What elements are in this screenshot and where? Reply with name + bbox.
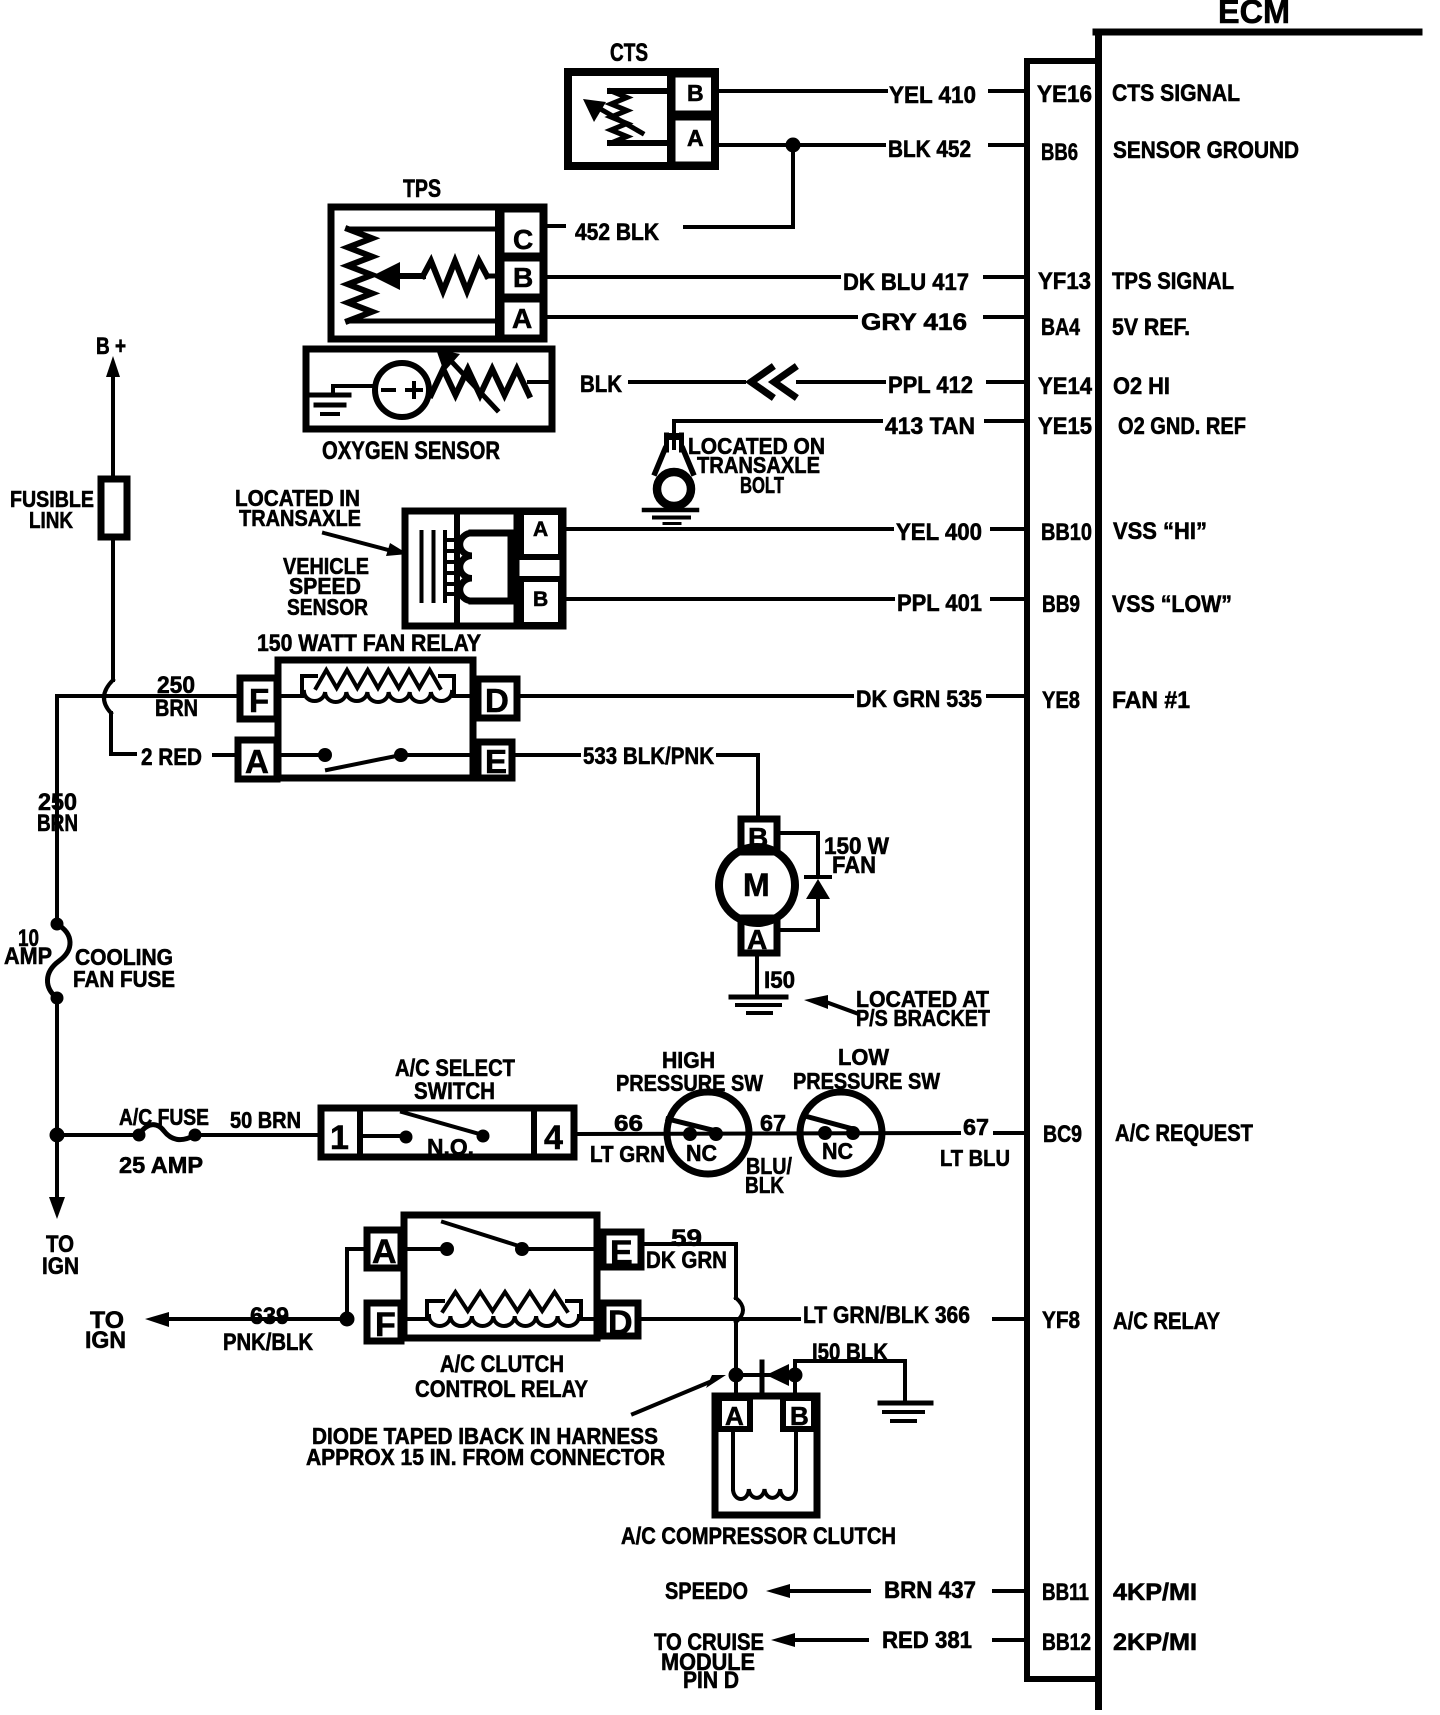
wire A branch	[347, 1249, 367, 1319]
ECM pin BA4	[1041, 314, 1081, 341]
ECM module box	[1096, 32, 1419, 1710]
svg-text:A/C FUSE: A/C FUSE	[119, 1104, 209, 1130]
svg-text:BB12: BB12	[1042, 1629, 1091, 1656]
ECM pin YF8	[1042, 1307, 1080, 1334]
oxygen sensor cell	[333, 363, 429, 417]
svg-text:4KP/MI: 4KP/MI	[1113, 1579, 1197, 1606]
svg-text:YEL 410: YEL 410	[889, 82, 976, 109]
svg-text:2KP/MI: 2KP/MI	[1113, 1629, 1197, 1656]
fan relay switch	[277, 748, 478, 770]
low pressure switch label	[793, 1044, 940, 1094]
fan relay pin A	[238, 740, 277, 780]
svg-text:PPL 401: PPL 401	[897, 590, 982, 617]
svg-text:A/C CLUTCH: A/C CLUTCH	[440, 1351, 564, 1378]
ECM pin BB6	[1041, 139, 1078, 166]
wire fusible link to 2 RED	[104, 537, 135, 754]
A/C select switch contacts	[360, 1112, 490, 1160]
svg-text:SENSOR: SENSOR	[287, 594, 368, 620]
svg-text:67: 67	[760, 1110, 786, 1136]
VSS pin A	[521, 512, 561, 557]
ECM signal label FAN #1	[1112, 687, 1190, 714]
svg-text:A: A	[533, 518, 548, 541]
ECM pin BB10	[1041, 519, 1092, 546]
fan relay pin E	[478, 742, 512, 780]
svg-text:FAN: FAN	[832, 852, 876, 879]
svg-text:APPROX 15 IN. FROM CONNECTOR: APPROX 15 IN. FROM CONNECTOR	[306, 1444, 665, 1470]
svg-text:ECM: ECM	[1218, 0, 1290, 30]
wire YEL 400	[563, 519, 1027, 546]
fan motor pin B	[741, 819, 777, 853]
svg-text:B: B	[533, 588, 548, 611]
diode note arrow	[633, 1375, 726, 1414]
compressor clutch body	[715, 1396, 817, 1515]
ECM signal label 4KP/MI	[1113, 1579, 1197, 1606]
ground I50 BLK	[880, 1403, 931, 1421]
fan motor	[719, 847, 795, 923]
ECM signal label VSS LOW	[1112, 591, 1232, 618]
svg-text:O2 GND. REF: O2 GND. REF	[1118, 413, 1246, 440]
A/C select switch label	[395, 1055, 515, 1105]
svg-text:PNK/BLK: PNK/BLK	[223, 1329, 314, 1356]
wire fan motor to ground	[757, 953, 795, 996]
wire 250 BRN rail	[37, 696, 78, 917]
ECM pin BB12	[1042, 1629, 1091, 1656]
svg-text:B: B	[687, 80, 704, 106]
svg-text:SPEEDO: SPEEDO	[665, 1578, 748, 1605]
svg-text:F: F	[375, 1306, 396, 1344]
svg-text:YF8: YF8	[1042, 1307, 1080, 1334]
VSS note arrow	[324, 533, 408, 556]
CTS thermistor	[610, 91, 667, 143]
TPS resistor	[348, 229, 498, 321]
svg-text:PPL 412: PPL 412	[888, 372, 973, 399]
svg-text:BLK: BLK	[580, 371, 623, 398]
wire 452 BLK branch	[545, 145, 793, 246]
wire 639 PNK/BLK	[85, 1303, 347, 1356]
wire DK GRN 535	[517, 686, 1027, 713]
svg-text:RED 381: RED 381	[882, 1627, 972, 1654]
A/C relay pin F	[367, 1303, 401, 1344]
A/C select switch pin 4	[544, 1119, 563, 1157]
junction dot 452	[786, 138, 801, 153]
svg-text:LOW: LOW	[838, 1044, 889, 1070]
svg-text:BB11: BB11	[1042, 1579, 1089, 1606]
svg-text:BRN: BRN	[155, 695, 198, 722]
ECM signal label VSS HI	[1113, 518, 1207, 545]
VSS coil 1	[445, 532, 456, 601]
ECM signal label 5V REF.	[1112, 314, 1190, 341]
TPS pin B	[502, 259, 542, 296]
A/C select switch body	[321, 1108, 574, 1157]
fusible link	[10, 479, 127, 537]
A/C relay pin D	[603, 1303, 638, 1342]
fan motor pin A	[741, 918, 777, 955]
svg-text:LT BLU: LT BLU	[940, 1145, 1010, 1171]
fan relay pin F	[240, 678, 277, 719]
fan label	[824, 833, 889, 879]
svg-text:FAN #1: FAN #1	[1112, 687, 1190, 714]
A/C clutch control relay body	[404, 1215, 597, 1338]
svg-text:413 TAN: 413 TAN	[885, 413, 975, 440]
ECM signal label A/C REQUEST	[1115, 1120, 1253, 1147]
ECM pin YE14	[1038, 373, 1093, 400]
wire 2 RED	[141, 744, 237, 771]
TPS label	[403, 175, 441, 203]
svg-text:VSS “HI”: VSS “HI”	[1113, 518, 1207, 545]
ground I50	[731, 997, 786, 1013]
svg-text:BLK 452: BLK 452	[888, 136, 971, 163]
A/C relay pin A	[367, 1230, 401, 1271]
svg-text:PIN D: PIN D	[683, 1667, 739, 1694]
svg-text:4: 4	[544, 1119, 563, 1157]
oxygen sensor body	[306, 349, 552, 429]
wire rail to IGN	[42, 1135, 79, 1280]
ECM signal label CTS SIGNAL	[1112, 80, 1240, 107]
VSS coil 2	[460, 533, 511, 601]
svg-text:DK GRN: DK GRN	[646, 1247, 727, 1274]
ECM signal label O2 GND. REF	[1118, 413, 1246, 440]
oxygen sensor ground	[312, 386, 349, 414]
svg-text:M: M	[743, 867, 770, 903]
TPS wiper	[372, 261, 502, 291]
oxygen sensor label	[322, 437, 500, 465]
svg-text:YF13: YF13	[1038, 268, 1091, 295]
wire 59 DK GRN	[641, 1225, 743, 1375]
CTS pin A	[673, 118, 714, 164]
svg-text:TRANSAXLE: TRANSAXLE	[239, 505, 361, 531]
svg-text:F: F	[249, 682, 269, 719]
svg-text:BA4: BA4	[1041, 314, 1081, 341]
oxygen sensor variable resistor	[431, 349, 552, 410]
svg-text:67: 67	[963, 1114, 989, 1140]
P/S bracket note	[804, 986, 990, 1031]
transaxle bolt ground	[644, 433, 697, 524]
svg-text:CTS: CTS	[610, 39, 648, 67]
svg-text:150 WATT FAN RELAY: 150 WATT FAN RELAY	[257, 630, 481, 657]
ECM signal label TPS SIGNAL	[1112, 268, 1234, 295]
svg-text:CONTROL RELAY: CONTROL RELAY	[415, 1376, 588, 1403]
compressor label	[621, 1523, 896, 1550]
svg-text:YE8: YE8	[1042, 687, 1080, 714]
wire 67 BLU/BLK	[745, 1110, 793, 1198]
svg-text:SWITCH: SWITCH	[414, 1078, 495, 1105]
B+ label	[96, 333, 126, 360]
svg-text:TPS SIGNAL: TPS SIGNAL	[1112, 268, 1234, 295]
svg-text:NC: NC	[686, 1140, 717, 1166]
svg-text:639: 639	[250, 1303, 289, 1330]
svg-text:A: A	[245, 743, 269, 780]
svg-text:BLK: BLK	[745, 1172, 784, 1198]
svg-text:533 BLK/PNK: 533 BLK/PNK	[583, 743, 715, 770]
A/C relay pin E	[603, 1232, 641, 1272]
ECM pin YE8	[1042, 687, 1080, 714]
wire 413 TAN	[674, 413, 1027, 448]
svg-text:AMP: AMP	[4, 943, 52, 970]
ECM signal label O2 HI	[1113, 373, 1170, 400]
svg-text:5V REF.: 5V REF.	[1112, 314, 1190, 341]
svg-text:66: 66	[614, 1110, 643, 1136]
compressor coil	[733, 1432, 796, 1499]
svg-text:BB10: BB10	[1041, 519, 1092, 546]
svg-text:IGN: IGN	[42, 1253, 79, 1280]
fan relay body	[278, 660, 473, 778]
wire 533 BLK/PNK	[512, 743, 758, 819]
TPS pin A	[502, 300, 542, 337]
svg-text:D: D	[608, 1304, 633, 1342]
svg-text:A/C REQUEST: A/C REQUEST	[1115, 1120, 1253, 1147]
ECM pin YE15	[1038, 413, 1092, 440]
svg-text:IGN: IGN	[85, 1327, 126, 1354]
svg-text:N.O.: N.O.	[427, 1134, 474, 1160]
wire 66 LT GRN	[574, 1110, 959, 1167]
svg-text:LT GRN: LT GRN	[590, 1141, 665, 1167]
ECM pin BB11	[1042, 1579, 1089, 1606]
junction dot clutch A	[729, 1368, 744, 1383]
svg-text:BB9: BB9	[1042, 591, 1080, 618]
svg-text:B +: B +	[96, 333, 126, 360]
ECM signal label A/C RELAY	[1113, 1308, 1220, 1335]
svg-text:E: E	[610, 1234, 633, 1272]
svg-text:A: A	[725, 1401, 744, 1431]
wire PPL 401	[563, 590, 1027, 617]
svg-text:I50 BLK: I50 BLK	[812, 1339, 889, 1366]
svg-text:DK BLU 417: DK BLU 417	[843, 269, 969, 296]
wire BLK 452	[715, 136, 1027, 163]
wire RED 381	[654, 1627, 1027, 1656]
wire GRY 416	[542, 309, 1027, 336]
svg-text:452 BLK: 452 BLK	[575, 219, 660, 246]
TPS pin C	[502, 210, 542, 255]
wire 67 LT BLU	[940, 1114, 1027, 1171]
compressor pin B	[783, 1382, 814, 1431]
svg-text:YE15: YE15	[1038, 413, 1092, 440]
VSS label	[283, 553, 369, 620]
CTS sensor body	[568, 72, 715, 166]
svg-text:A/C COMPRESSOR CLUTCH: A/C COMPRESSOR CLUTCH	[621, 1523, 896, 1550]
compressor pin A	[719, 1382, 750, 1431]
fan relay pin D	[478, 679, 517, 719]
svg-text:O2 HI: O2 HI	[1113, 373, 1170, 400]
svg-text:YEL 400: YEL 400	[896, 519, 982, 546]
wire 50 BRN	[195, 1107, 318, 1135]
A/C clutch control relay label	[415, 1351, 588, 1403]
svg-text:SENSOR GROUND: SENSOR GROUND	[1113, 137, 1299, 164]
ECM connector strip	[1027, 61, 1099, 1679]
svg-text:VSS “LOW”: VSS “LOW”	[1112, 591, 1232, 618]
svg-text:A: A	[687, 125, 704, 151]
svg-text:YE14: YE14	[1038, 373, 1093, 400]
svg-text:PRESSURE SW: PRESSURE SW	[793, 1068, 940, 1094]
wire BRN 437	[665, 1577, 1027, 1605]
fan diode	[777, 833, 830, 930]
wire rail to junction	[55, 998, 59, 1135]
CTS arrow	[583, 99, 642, 133]
CTS label	[610, 39, 648, 67]
svg-text:A: A	[372, 1233, 397, 1271]
svg-text:BB6: BB6	[1041, 139, 1078, 166]
VSS body	[405, 511, 563, 626]
svg-text:E: E	[485, 743, 507, 780]
clutch diode	[736, 1362, 795, 1390]
svg-text:BC9: BC9	[1043, 1121, 1082, 1148]
svg-text:25 AMP: 25 AMP	[119, 1152, 203, 1178]
wire 250 BRN to fan relay	[57, 672, 237, 722]
A/C relay coil	[401, 1292, 603, 1326]
VSS core	[422, 532, 434, 601]
ECM pin YE16	[1037, 81, 1092, 108]
svg-text:A: A	[747, 924, 767, 955]
svg-text:TPS: TPS	[403, 175, 441, 203]
svg-text:1: 1	[330, 1119, 349, 1157]
fan relay coil	[277, 670, 478, 702]
B+ arrow	[106, 356, 120, 476]
wire I50 BLK	[795, 1339, 905, 1401]
svg-text:A: A	[512, 303, 532, 334]
svg-text:BOLT: BOLT	[740, 472, 784, 498]
ECM pin YF13	[1038, 268, 1091, 295]
svg-text:LT GRN/BLK 366: LT GRN/BLK 366	[803, 1302, 970, 1329]
svg-text:NC: NC	[822, 1138, 853, 1164]
high pressure switch label	[616, 1047, 763, 1096]
svg-text:OXYGEN SENSOR: OXYGEN SENSOR	[322, 437, 500, 465]
ECM pin BC9	[1043, 1121, 1082, 1148]
cooling fan fuse	[4, 918, 175, 1005]
CTS pin B	[673, 75, 714, 113]
svg-text:C: C	[513, 224, 533, 255]
diode note text	[306, 1423, 665, 1470]
A/C select switch pin 1	[330, 1119, 349, 1157]
svg-text:50 BRN: 50 BRN	[230, 1107, 301, 1133]
svg-text:DK GRN 535: DK GRN 535	[856, 686, 982, 713]
svg-text:P/S BRACKET: P/S BRACKET	[856, 1005, 990, 1031]
ECM pin BB9	[1042, 591, 1080, 618]
ECM signal label 2KP/MI	[1113, 1629, 1197, 1656]
fan relay label	[257, 630, 481, 657]
high pressure switch	[667, 1092, 749, 1174]
svg-text:CTS SIGNAL: CTS SIGNAL	[1112, 80, 1240, 107]
wire BLK / PPL 412	[580, 368, 1027, 399]
svg-text:LINK: LINK	[29, 507, 73, 533]
wire YEL 410	[715, 82, 1027, 109]
junction dot 639	[340, 1312, 355, 1327]
cruise module text	[661, 1649, 755, 1694]
svg-text:B: B	[790, 1401, 809, 1431]
ECM signal label SENSOR GROUND	[1113, 137, 1299, 164]
VSS note text	[235, 485, 361, 531]
junction dot rail	[50, 1128, 65, 1143]
svg-text:BRN 437: BRN 437	[884, 1577, 976, 1604]
svg-text:YE16: YE16	[1037, 81, 1092, 108]
svg-text:B: B	[513, 262, 533, 293]
A/C fuse	[57, 1104, 209, 1178]
svg-text:D: D	[485, 682, 509, 719]
wire LT GRN/BLK 366	[638, 1302, 1027, 1329]
junction dot clutch B	[788, 1368, 803, 1383]
svg-text:PRESSURE SW: PRESSURE SW	[616, 1070, 763, 1096]
bolt note text	[688, 433, 825, 498]
VSS pin B	[521, 579, 561, 625]
svg-text:2 RED: 2 RED	[141, 744, 202, 771]
wire DK BLU 417	[542, 269, 1027, 296]
low pressure switch	[800, 1092, 882, 1174]
svg-text:A/C RELAY: A/C RELAY	[1113, 1308, 1220, 1335]
svg-text:BRN: BRN	[37, 810, 78, 837]
A/C relay switch	[401, 1222, 603, 1256]
ECM label	[1218, 0, 1290, 30]
TPS body	[331, 207, 544, 339]
svg-text:I50: I50	[764, 967, 795, 994]
svg-text:GRY 416: GRY 416	[861, 309, 967, 336]
svg-text:FAN FUSE: FAN FUSE	[73, 966, 175, 992]
